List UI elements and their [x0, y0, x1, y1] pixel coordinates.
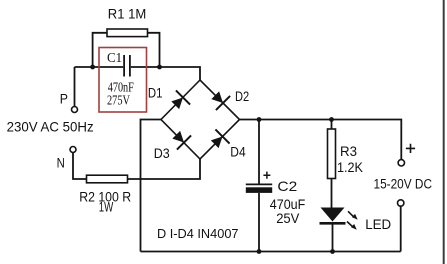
svg-text:N: N: [57, 155, 65, 171]
svg-text:1.2K: 1.2K: [337, 159, 364, 175]
svg-text:R3: R3: [340, 143, 357, 159]
svg-text:1W: 1W: [99, 200, 114, 215]
svg-text:R1 1M: R1 1M: [108, 5, 147, 21]
svg-text:25V: 25V: [276, 210, 300, 226]
svg-text:P: P: [60, 91, 68, 107]
svg-text:D4: D4: [230, 144, 246, 159]
svg-text:15-20V DC: 15-20V DC: [374, 177, 433, 192]
svg-text:C2: C2: [277, 178, 297, 194]
svg-text:D1: D1: [148, 86, 163, 101]
svg-text:C1: C1: [107, 51, 122, 66]
svg-text:D2: D2: [235, 89, 249, 104]
svg-text:230V AC 50Hz: 230V AC 50Hz: [7, 119, 94, 135]
svg-text:D I-D4 IN4007: D I-D4 IN4007: [157, 226, 239, 241]
svg-text:275V: 275V: [107, 94, 130, 109]
svg-text:LED: LED: [365, 216, 391, 232]
svg-text:D3: D3: [154, 146, 170, 161]
